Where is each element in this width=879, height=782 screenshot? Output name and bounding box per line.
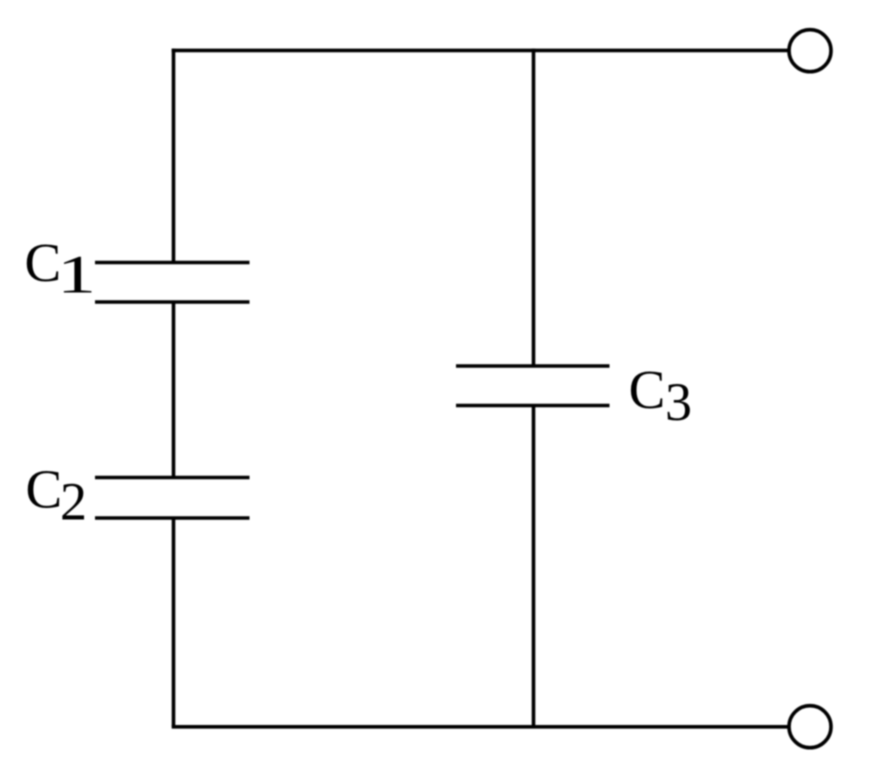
wire top horizontal	[172, 49, 789, 53]
svg-text:C: C	[25, 232, 62, 293]
wire between C1 and C2	[172, 302, 176, 478]
label C2	[26, 459, 88, 532]
label C1	[25, 232, 97, 305]
svg-text:1: 1	[57, 244, 96, 304]
capacitor C1	[95, 263, 250, 303]
wire middle vertical upper (top rail to C3)	[532, 49, 536, 366]
svg-text:3: 3	[665, 372, 692, 432]
terminal top right	[789, 30, 831, 72]
terminal bottom right	[789, 706, 831, 748]
wire middle vertical lower (C3 to bottom rail)	[532, 406, 536, 727]
capacitor C3	[456, 366, 610, 406]
wire left vertical upper (top rail to C1)	[172, 49, 176, 263]
wire left vertical lower (C2 to bottom rail)	[172, 518, 176, 727]
label C3	[629, 359, 692, 432]
svg-text:2: 2	[60, 471, 87, 531]
svg-text:C: C	[629, 359, 666, 420]
capacitor C2	[95, 478, 250, 519]
wire bottom horizontal	[172, 725, 789, 729]
svg-text:C: C	[26, 459, 63, 520]
